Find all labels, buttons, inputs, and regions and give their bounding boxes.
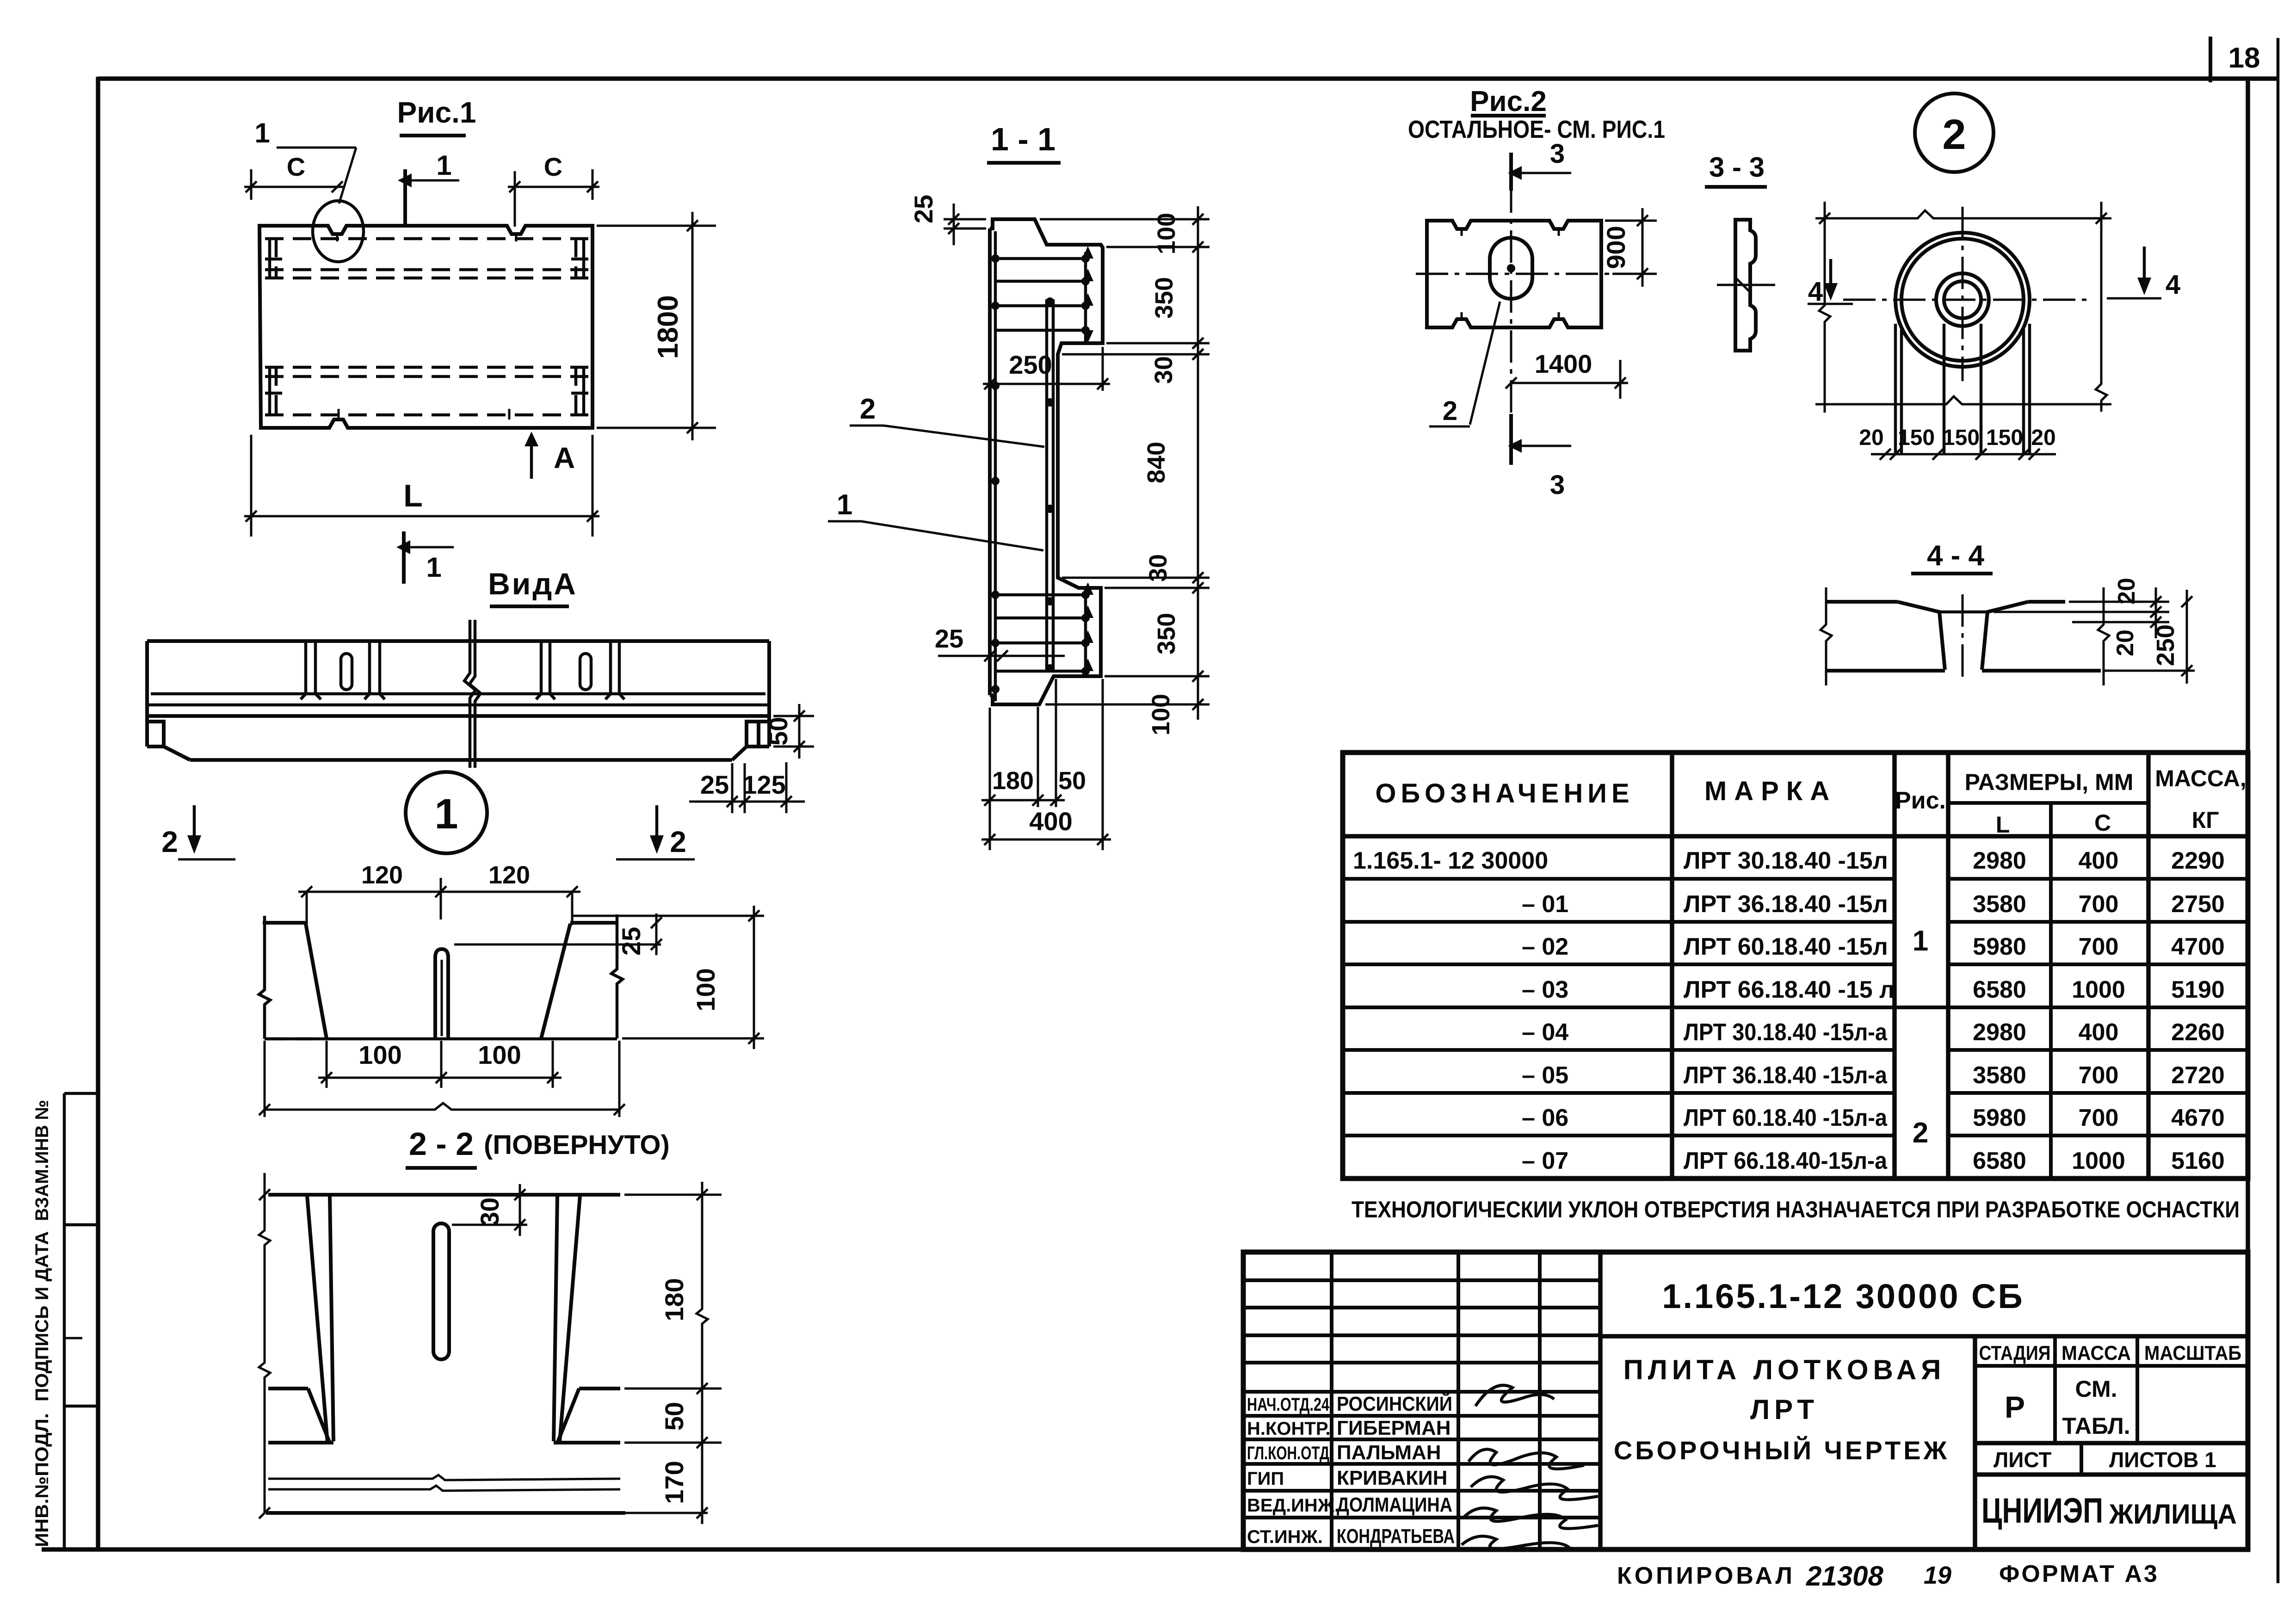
sec44 third ext right	[2072, 621, 2169, 623]
corner stub top right	[571, 239, 588, 278]
dim 25 125 ext c	[785, 762, 788, 813]
det1 right edge with break	[611, 914, 623, 1038]
svg-text:4: 4	[1808, 277, 1823, 307]
sec44 funnel floor	[1939, 611, 1987, 614]
svg-text:– 07: – 07	[1522, 1148, 1568, 1174]
det1 width dim line with break	[265, 1103, 619, 1110]
chain ext 1523	[1045, 704, 1210, 706]
table row lines right part	[1948, 879, 2248, 1136]
vidA flange underside	[147, 714, 769, 718]
table column ris/razmery	[1946, 753, 1950, 1179]
dim L ext left	[250, 435, 253, 537]
dim 250 line	[2186, 590, 2188, 684]
det1 top edge right	[570, 921, 617, 925]
svg-text:6580: 6580	[1973, 976, 2026, 1003]
vidA break line right	[469, 620, 481, 768]
svg-text:30: 30	[1144, 554, 1172, 582]
sec33 mid tick	[1735, 278, 1750, 292]
leader 1 slant	[339, 148, 356, 204]
dim 180 50 line	[981, 799, 1065, 802]
sec22 bottom line	[266, 1511, 625, 1515]
sec22 right dim line	[697, 1182, 708, 1524]
det1 rib inner line	[441, 960, 443, 1036]
dim 250 ext	[1102, 347, 1104, 391]
svg-text:125: 125	[742, 770, 785, 799]
sec22 left leg inner	[330, 1196, 333, 1441]
svg-text:30: 30	[1150, 356, 1178, 384]
sec22 left leg outer	[307, 1196, 327, 1442]
dim 50 ext a	[773, 715, 814, 717]
section mark 2 right	[655, 805, 659, 847]
vidA post 1	[301, 641, 321, 699]
sec22 bottom ext right	[625, 1512, 708, 1514]
section mark 4 left bar	[1808, 303, 1853, 305]
svg-text:120: 120	[488, 861, 530, 889]
dim 100 det1 tick b	[748, 1033, 759, 1044]
detail circle 1	[406, 772, 487, 853]
det2 top edge with break	[1815, 210, 2111, 218]
svg-text:ПЛИТА ЛОТКОВАЯ: ПЛИТА ЛОТКОВАЯ	[1623, 1354, 1946, 1385]
svg-text:180: 180	[660, 1278, 689, 1321]
vidA title underline	[490, 605, 569, 608]
svg-text:150: 150	[1986, 426, 2023, 450]
dim 100 100 tick b	[436, 1072, 447, 1083]
rebar bottom cage dots	[1081, 591, 1090, 675]
svg-text:180: 180	[992, 767, 1034, 795]
rebar bottom cage bar 1	[995, 593, 1088, 597]
corner stub bottom right	[571, 367, 588, 415]
svg-text:1: 1	[1913, 925, 1928, 957]
section mark 3 bottom line	[1509, 414, 1513, 465]
dim 100 100 ext a	[326, 1041, 328, 1088]
svg-text:4670: 4670	[2171, 1105, 2225, 1131]
svg-text:НАЧ.ОТД.24: НАЧ.ОТД.24	[1247, 1395, 1330, 1415]
svg-text:1: 1	[434, 790, 458, 838]
list row divider	[2080, 1443, 2083, 1475]
hidden vertical bottom left	[275, 367, 278, 415]
table razmery subheader line	[1948, 801, 2148, 805]
rebar bottom cage vertical	[1084, 590, 1087, 674]
svg-text:900: 900	[1601, 226, 1630, 269]
dim 900 ext mid	[1612, 273, 1657, 275]
dim 120 120 line	[298, 891, 580, 893]
svg-text:100: 100	[1153, 213, 1180, 254]
svg-text:ТЕХНОЛОГИЧЕСКИИ УКЛОН ОТВЕРСТИ: ТЕХНОЛОГИЧЕСКИИ УКЛОН ОТВЕРСТИЯ НАЗНАЧАЕ…	[1352, 1197, 2240, 1222]
sec22 thin plate line a	[268, 1475, 620, 1480]
dim 30 tick b	[514, 1219, 525, 1230]
dim 100 100 tick c	[547, 1072, 558, 1083]
frame left line	[96, 77, 100, 1550]
hidden line top a	[265, 237, 588, 241]
sec22 left dim line with breaks	[259, 1173, 270, 1513]
massa/masshtab divider	[2136, 1336, 2139, 1443]
strip divider 1	[64, 1223, 98, 1227]
svg-text:100: 100	[478, 1040, 521, 1069]
det2 outer circle 2	[1901, 239, 2024, 361]
balloon circle 2	[1915, 93, 1994, 172]
svg-text:100: 100	[691, 968, 720, 1011]
svg-text:30: 30	[475, 1197, 504, 1226]
sec11 left edge	[988, 228, 992, 695]
svg-text:L: L	[1996, 812, 2010, 838]
svg-text:2: 2	[670, 825, 686, 858]
svg-text:400: 400	[2079, 1019, 2119, 1046]
vidA left edge	[145, 641, 149, 747]
svg-text:А: А	[554, 441, 575, 475]
svg-text:5980: 5980	[1973, 1105, 2026, 1131]
svg-text:ФОРМАТ А3: ФОРМАТ А3	[1999, 1561, 2159, 1587]
section mark 3 top line	[1509, 153, 1513, 191]
vidA slot 2	[580, 654, 591, 690]
fig1 title underline	[400, 134, 466, 137]
svg-text:– 01: – 01	[1522, 891, 1568, 918]
section mark 3 top arrow	[1522, 172, 1571, 174]
svg-text:1.165.1-12 30000 СБ: 1.165.1-12 30000 СБ	[1662, 1277, 2024, 1315]
svg-text:2260: 2260	[2171, 1019, 2225, 1046]
rebar top cage bar 3	[995, 304, 1088, 308]
vidA right foot	[732, 722, 769, 760]
list row bottom	[1975, 1472, 2248, 1477]
fig2 vertical centerline	[1510, 180, 1512, 419]
svg-text:ВЗАМ.ИНВ №: ВЗАМ.ИНВ №	[32, 1100, 52, 1221]
fig2 plate outline	[1427, 221, 1601, 327]
det1 rib	[435, 949, 448, 1039]
svg-text:ЛРТ 60.18.40 -15л-а: ЛРТ 60.18.40 -15л-а	[1684, 1105, 1888, 1131]
svg-text:МАССА: МАССА	[2061, 1342, 2131, 1364]
svg-text:1000: 1000	[2072, 976, 2125, 1003]
dim 250 ticks	[2181, 596, 2192, 676]
svg-text:2750: 2750	[2171, 891, 2225, 918]
det2 left ext with break	[1819, 202, 1830, 413]
dim 250 line	[983, 383, 1110, 385]
dim 25 top line	[953, 204, 955, 245]
sec44 top ext right	[2069, 601, 2169, 603]
fig2 oval hole	[1490, 238, 1532, 299]
svg-text:ТАБЛ.: ТАБЛ.	[2062, 1413, 2130, 1439]
sec22 dim tick 3	[697, 1437, 708, 1448]
dim 100 100 ext b	[440, 1041, 443, 1088]
rebar bottom cage bar 3	[995, 642, 1088, 645]
stadiya block divider	[1973, 1336, 1977, 1549]
det2 vertical centerline	[1962, 207, 1964, 381]
hidden vertical bottom right	[574, 367, 578, 415]
leader 1 bar	[277, 147, 356, 149]
dim 1800 tick b	[687, 422, 698, 433]
title block col c	[1538, 1252, 1542, 1549]
svg-text:L: L	[403, 478, 423, 513]
svg-text:Р: Р	[2005, 1390, 2025, 1424]
dim 25 bottom line	[938, 655, 1065, 657]
dim C left line	[244, 186, 344, 188]
dim C right tick a	[509, 181, 520, 192]
svg-text:400: 400	[2079, 847, 2119, 874]
table row 6	[1522, 1062, 2225, 1089]
det2 dim ticks	[1880, 449, 2040, 460]
dim 900 line	[1642, 208, 1644, 287]
frame inner right line	[2246, 79, 2250, 1549]
svg-text:1: 1	[837, 489, 852, 521]
sec33 profile	[1735, 220, 1756, 351]
svg-text:50: 50	[660, 1402, 689, 1431]
dim C right line	[508, 186, 599, 188]
svg-text:(ПОВЕРНУТО): (ПОВЕРНУТО)	[484, 1130, 670, 1160]
table row 3	[1522, 933, 2225, 960]
dim 25 top tick b	[948, 223, 959, 234]
dim 100 100 line	[318, 1077, 562, 1079]
sec22 right ground	[554, 1441, 620, 1444]
signature scribbles	[1462, 1385, 1598, 1549]
svg-text:5190: 5190	[2171, 976, 2225, 1003]
rebar loop bar b	[1052, 299, 1055, 672]
rebar top cage bar 1	[995, 257, 1088, 260]
det1 floor line	[265, 1037, 617, 1041]
fig2 label 2 underline	[1429, 426, 1470, 428]
dim 20 20 line	[2155, 587, 2157, 638]
dim 25 top ext a	[944, 218, 986, 221]
sec22 top edge	[268, 1193, 620, 1197]
dim 900 ext top	[1605, 220, 1657, 222]
svg-text:– 05: – 05	[1522, 1062, 1568, 1089]
sec22 right ext top	[624, 1194, 722, 1196]
det2 bottom edge with break	[1815, 396, 2111, 404]
rebar top cage dots	[1081, 254, 1090, 334]
hidden line bottom c	[265, 414, 588, 417]
svg-text:СТ.ИНЖ.: СТ.ИНЖ.	[1247, 1527, 1323, 1547]
dim 900 ticks	[1637, 215, 1648, 279]
rebar bottom cage bar 4	[995, 670, 1088, 673]
table row 7	[1522, 1105, 2225, 1131]
sec44 title underline	[1911, 572, 1993, 575]
dim 120 120 ext mid	[440, 878, 442, 920]
title block outer	[1243, 1252, 2248, 1549]
svg-text:ИНВ.№ПОДЛ.: ИНВ.№ПОДЛ.	[32, 1413, 52, 1547]
sec22 right chamfer	[558, 1389, 579, 1442]
dim 25 det1 ext	[454, 944, 661, 946]
dim 100 det1 ext bottom	[622, 1037, 764, 1040]
strip divider 2	[64, 1405, 98, 1408]
hidden line top b	[265, 268, 588, 272]
svg-text:4: 4	[2166, 270, 2180, 300]
svg-text:350: 350	[1150, 277, 1178, 319]
det1 left edge with break	[259, 916, 270, 1039]
svg-text:2: 2	[1942, 111, 1966, 158]
section mark 4 right bar	[2107, 297, 2161, 300]
dim C right tick b	[587, 181, 598, 192]
dim 1400 ext	[1619, 360, 1622, 399]
sec22 title underline	[406, 1166, 477, 1170]
svg-text:20: 20	[1859, 426, 1883, 450]
svg-text:ЛРТ 36.18.40 -15л: ЛРТ 36.18.40 -15л	[1684, 891, 1888, 918]
svg-text:Рис.1: Рис.1	[397, 96, 476, 129]
svg-text:МАССА,: МАССА,	[2155, 765, 2247, 791]
rebar top cage bar 2	[995, 280, 1088, 283]
det2 horizontal centerline	[1843, 299, 2091, 301]
svg-text:20: 20	[2031, 426, 2055, 450]
svg-text:КОПИРОВАЛ: КОПИРОВАЛ	[1617, 1562, 1795, 1589]
svg-text:3580: 3580	[1973, 1062, 2026, 1089]
sec22 right slab bottom	[579, 1387, 620, 1390]
svg-text:150: 150	[1943, 426, 1980, 450]
section mark 1 top arrow	[412, 179, 459, 182]
svg-text:5980: 5980	[1973, 933, 2026, 960]
svg-text:СМ.: СМ.	[2075, 1376, 2117, 1402]
title block col a	[1330, 1252, 1333, 1549]
chain dim line	[1197, 206, 1199, 720]
svg-text:1000: 1000	[2072, 1148, 2125, 1174]
title block main divider	[1598, 1252, 1603, 1549]
dim 30 line	[519, 1184, 521, 1236]
svg-text:50: 50	[1058, 767, 1086, 795]
vidA break line left	[464, 620, 475, 768]
table row 2	[1522, 891, 2225, 918]
svg-text:СТАДИЯ: СТАДИЯ	[1979, 1342, 2051, 1364]
bottom ext 2384	[1102, 679, 1104, 850]
fig2 notch ticks	[1462, 229, 1559, 319]
sec22 right leg outer	[560, 1196, 580, 1442]
det2 outer circle	[1895, 233, 2030, 367]
det1 top edge left	[263, 921, 306, 925]
svg-text:250: 250	[1009, 350, 1052, 379]
vidA panel bottom line	[151, 692, 765, 696]
dim 25 det1 tick a	[651, 917, 662, 928]
section mark 2 left	[193, 805, 196, 847]
svg-text:ГИП: ГИП	[1247, 1469, 1284, 1489]
svg-text:ЛИСТ: ЛИСТ	[1994, 1448, 2052, 1472]
strip half tick	[64, 1337, 82, 1339]
det2 wall verticals	[1895, 324, 2030, 454]
svg-text:840: 840	[1142, 442, 1170, 483]
plate outline plan	[259, 226, 593, 428]
svg-text:3: 3	[1550, 139, 1565, 169]
dim 100 det1 line	[753, 906, 755, 1049]
svg-text:2980: 2980	[1973, 1019, 2026, 1046]
sec22 left dim tick top	[259, 1189, 270, 1200]
bottom ext 2244	[1037, 707, 1039, 807]
svg-text:20: 20	[2113, 578, 2140, 605]
det1 width ext left	[264, 1041, 266, 1117]
svg-text:1.165.1- 12 30000: 1.165.1- 12 30000	[1353, 847, 1548, 874]
table row 4	[1522, 976, 2225, 1003]
section mark 3 bottom arrow	[1522, 445, 1571, 447]
section mark 1 top line	[403, 169, 407, 226]
bottom ext 2140	[989, 708, 991, 850]
view A arrow	[530, 440, 533, 479]
table row 5	[1522, 1019, 2225, 1046]
svg-text:50: 50	[764, 717, 793, 746]
svg-text:– 06: – 06	[1522, 1105, 1568, 1131]
svg-text:2290: 2290	[2171, 847, 2225, 874]
chain ext 474	[1040, 218, 1210, 221]
sec22 left slab bottom	[268, 1387, 308, 1390]
dim L line	[244, 515, 599, 518]
svg-text:120: 120	[361, 861, 403, 889]
svg-text:2: 2	[1913, 1117, 1928, 1149]
dim 1800 ext bottom	[597, 427, 716, 429]
dim L tick a	[246, 511, 257, 522]
svg-text:ПАЛЬМАН: ПАЛЬМАН	[1337, 1441, 1441, 1464]
sec44 left end ext	[1821, 587, 1832, 685]
svg-text:2980: 2980	[1973, 847, 2026, 874]
dim 250 tick b	[1097, 378, 1108, 389]
svg-text:ЛРТ 66.18.40-15л-а: ЛРТ 66.18.40-15л-а	[1684, 1148, 1888, 1174]
dim 25 125 ext a	[731, 763, 734, 813]
dim 400 line	[981, 839, 1111, 841]
svg-text:700: 700	[2079, 933, 2119, 960]
dim C right ext a	[514, 171, 516, 227]
svg-text:3 - 3: 3 - 3	[1709, 152, 1765, 183]
svg-text:25: 25	[700, 770, 729, 799]
signature row names	[1337, 1392, 1455, 1548]
svg-text:С: С	[2094, 810, 2111, 836]
vidA post 4	[605, 641, 624, 699]
svg-text:4700: 4700	[2171, 933, 2225, 960]
rebar loop bar a	[1045, 299, 1049, 672]
svg-text:1: 1	[254, 117, 270, 148]
fig2 label 2 leader	[1470, 302, 1500, 425]
dim 50 ext b	[773, 746, 814, 748]
sec33 centerline	[1717, 284, 1775, 286]
svg-text:ВидА: ВидА	[488, 567, 578, 601]
chain ext 742	[1106, 342, 1210, 345]
vidA left foot	[147, 722, 190, 760]
detail oval on notch	[313, 201, 364, 262]
svg-text:400: 400	[1029, 807, 1072, 836]
svg-text:25: 25	[909, 195, 938, 223]
table row lines left part	[1343, 879, 1895, 1136]
det2 right ext with break	[2096, 202, 2107, 412]
sec22 right leg inner	[554, 1196, 557, 1441]
vidA right edge	[767, 641, 771, 747]
svg-text:ЛРТ 60.18.40 -15л: ЛРТ 60.18.40 -15л	[1684, 933, 1888, 960]
det2 inner circle	[1936, 273, 1989, 326]
sec22 left dim tick bottom	[259, 1507, 270, 1518]
table column oboznachenie/marka	[1670, 753, 1674, 1179]
table row 1	[1353, 847, 2225, 874]
section mark 2 right bar	[616, 858, 695, 861]
rebar wall bar dots	[991, 254, 1000, 693]
sec44 centerline	[1962, 594, 1964, 682]
svg-text:ЛРТ 30.18.40 -15л-а: ЛРТ 30.18.40 -15л-а	[1684, 1019, 1888, 1046]
bottom ext 2283	[1055, 679, 1057, 807]
svg-text:1800: 1800	[652, 295, 684, 359]
sec33 title underline	[1705, 185, 1767, 189]
sheet outer right edge	[2277, 38, 2280, 1583]
svg-text:2 - 2: 2 - 2	[409, 1126, 474, 1162]
chain ext 534	[1106, 246, 1210, 248]
dim 125 tick	[781, 796, 792, 807]
table column marka/ris	[1892, 753, 1897, 1179]
dim C right ext b	[592, 169, 594, 200]
hidden line bottom a	[265, 366, 588, 369]
svg-text:700: 700	[2079, 1062, 2119, 1089]
chain ext 766	[1062, 353, 1210, 356]
section mark 1 bottom arrow	[410, 546, 454, 549]
det1 width ext right	[618, 1041, 621, 1117]
hidden line top c	[265, 277, 588, 280]
dim 100 det1 tick a	[748, 910, 759, 921]
title block	[1243, 1252, 2248, 1549]
fig2 horizontal centerline	[1416, 273, 1612, 275]
table row 8	[1522, 1148, 2225, 1174]
sec22 left ground	[268, 1441, 333, 1444]
dim 25 det1 line	[655, 913, 658, 955]
dim 30 tick a	[514, 1189, 525, 1200]
svg-text:ЛИСТОВ 1: ЛИСТОВ 1	[2109, 1448, 2216, 1472]
svg-text:– 04: – 04	[1522, 1019, 1568, 1046]
rebar bottom cage bar 2	[995, 617, 1088, 620]
det2 dim line	[1871, 453, 2056, 456]
svg-text:ОСТАЛЬНОЕ- СМ. РИС.1: ОСТАЛЬНОЕ- СМ. РИС.1	[1408, 116, 1665, 143]
